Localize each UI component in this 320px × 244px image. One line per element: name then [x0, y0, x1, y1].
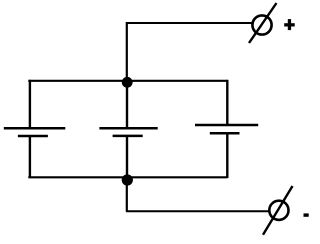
B1 positive plate (long)	[4, 127, 66, 130]
node A (top junction dot)	[122, 77, 133, 88]
T- circle	[269, 201, 288, 220]
battery B1 (left cell)	[4, 80, 66, 178]
node B (bottom junction dot)	[122, 174, 133, 185]
battery B2 (middle cell)	[99, 82, 157, 178]
wire vertical segment from corner down to top bus node	[126, 22, 128, 81]
terminal T+ (positive output connector)	[249, 3, 277, 43]
B1 negative plate (short)	[18, 135, 48, 138]
wire B3 bottom lead	[226, 133, 228, 178]
wire B2 top lead	[126, 82, 128, 128]
wire B1 bottom lead	[29, 136, 31, 178]
wire B1 top lead	[29, 80, 31, 128]
wire bottom bus of parallel bank	[28, 176, 227, 178]
battery B3 (right cell)	[195, 80, 258, 178]
wire from + terminal (horizontal segment to corner)	[126, 22, 253, 24]
wire B3 top lead	[226, 80, 228, 125]
wire top bus of parallel bank	[28, 80, 227, 82]
T+ slash	[249, 3, 277, 43]
B3 negative plate (short)	[210, 132, 240, 135]
wire B2 bottom lead	[126, 136, 128, 178]
B2 negative plate (short)	[113, 135, 143, 138]
T+ circle	[252, 15, 271, 34]
label - (minus sign)	[304, 213, 309, 216]
T- slash	[263, 186, 293, 235]
wire horizontal segment to - terminal	[126, 210, 269, 212]
B3 positive plate (long)	[195, 124, 258, 127]
terminal T- (negative output connector)	[263, 186, 293, 235]
label + (plus sign)	[284, 19, 295, 30]
B2 positive plate (long)	[99, 127, 157, 130]
wire vertical segment from bottom bus node down	[126, 177, 128, 212]
